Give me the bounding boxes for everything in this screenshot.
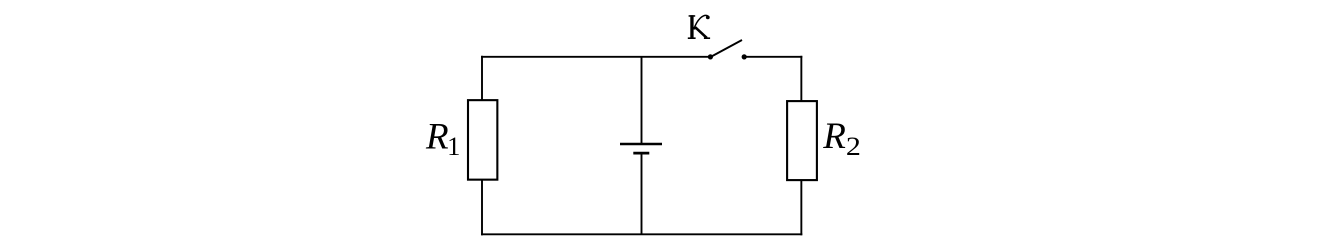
svg-text:1: 1 — [447, 131, 460, 161]
svg-text:R: R — [822, 116, 846, 157]
svg-text:2: 2 — [846, 131, 861, 161]
svg-text:R: R — [425, 117, 449, 158]
